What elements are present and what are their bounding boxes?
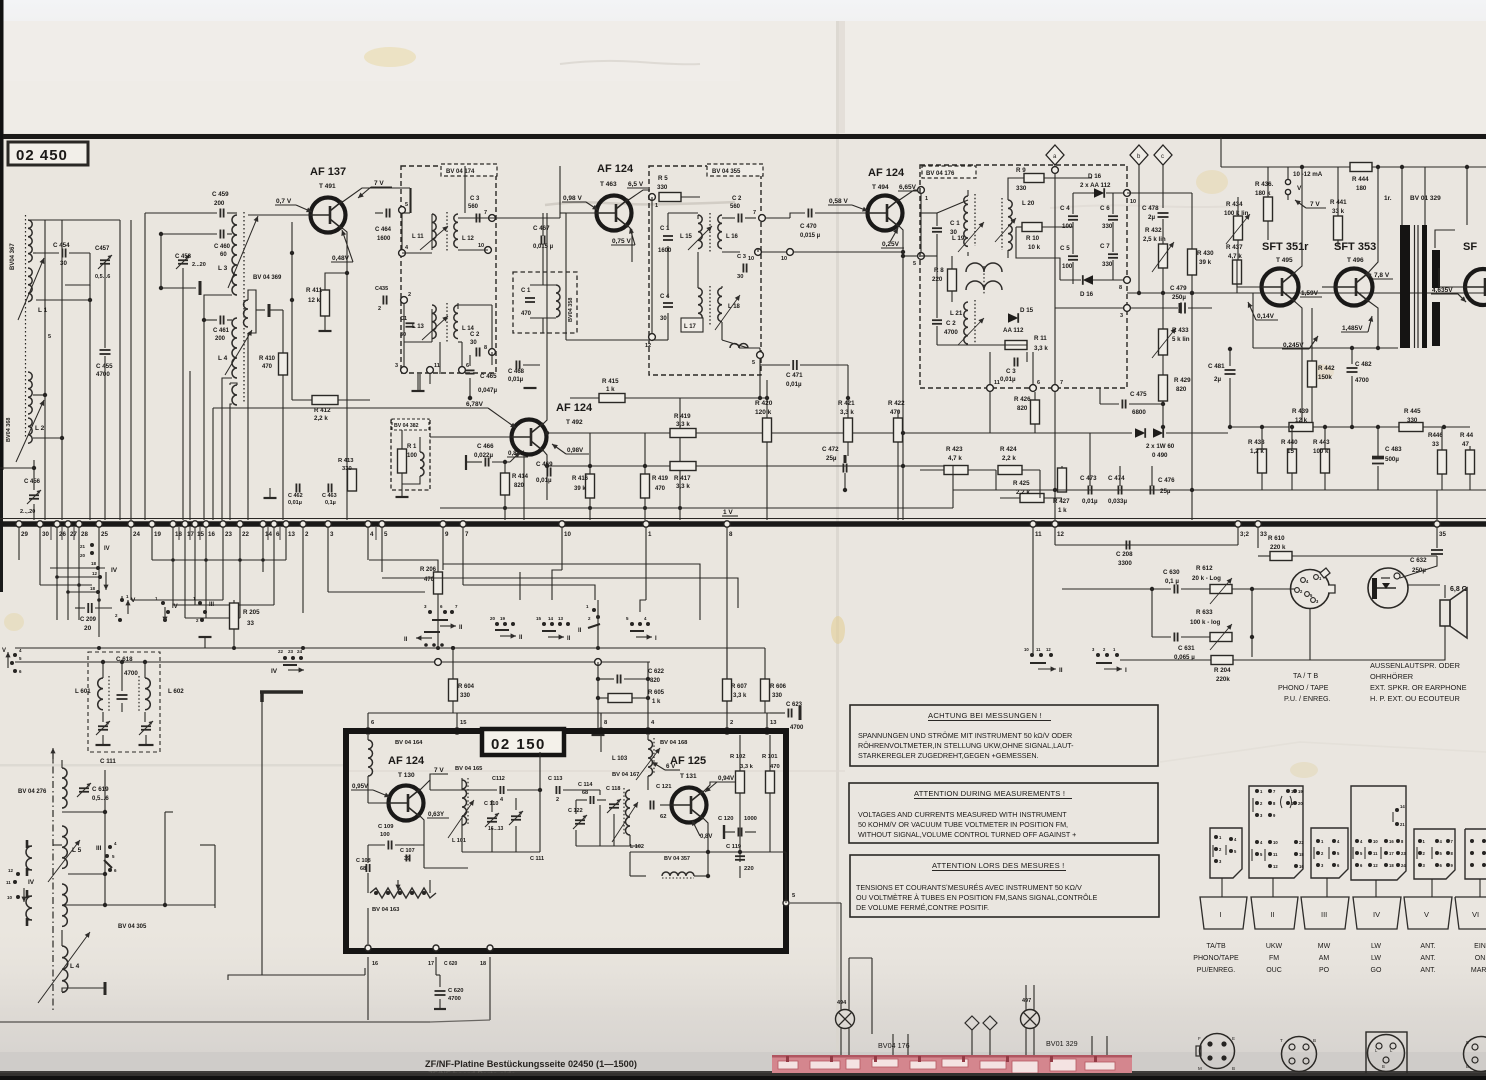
left scan edge black bar <box>0 0 4 470</box>
svg-text:50 KOHM/V OR VACUUM TUBE VOLT: 50 KOHM/V OR VACUUM TUBE VOLTMETER IN PO… <box>858 820 1068 829</box>
svg-text:L 19: L 19 <box>952 235 965 242</box>
svg-text:L 16: L 16 <box>726 234 739 240</box>
svg-text:IV: IV <box>28 879 35 886</box>
svg-text:11: 11 <box>1035 531 1042 538</box>
svg-text:AF 125: AF 125 <box>670 755 706 767</box>
svg-text:BV 04 357: BV 04 357 <box>664 856 690 862</box>
svg-text:39 k: 39 k <box>574 486 586 492</box>
svg-text:3,3 k: 3,3 k <box>733 693 747 699</box>
capacitor C3 560 in box <box>475 214 477 223</box>
svg-text:R 419: R 419 <box>674 413 691 420</box>
svg-text:0,01µ: 0,01µ <box>786 381 802 388</box>
lamp 497 symbol <box>1021 1010 1040 1029</box>
coils L15 L16 <box>698 215 702 249</box>
svg-text:14: 14 <box>265 531 272 538</box>
svg-text:C 3: C 3 <box>737 254 747 260</box>
svg-text:MW: MW <box>1318 943 1331 950</box>
svg-text:12: 12 <box>8 868 14 873</box>
capacitor C4 100 <box>1068 215 1078 217</box>
svg-text:R 410: R 410 <box>259 356 276 362</box>
svg-text:330: 330 <box>1407 417 1418 424</box>
terminal 23 on bottom rail <box>220 521 226 527</box>
svg-text:1,2 k: 1,2 k <box>1250 448 1264 455</box>
vertical pin17 down <box>435 957 437 975</box>
svg-text:R 205: R 205 <box>243 609 260 616</box>
switch cluster below R206 <box>437 594 439 648</box>
wire C455 to bus <box>104 262 106 348</box>
svg-text:22: 22 <box>242 531 249 538</box>
wires right half BV04 176 <box>1072 193 1074 214</box>
wires BV04 382 <box>401 437 403 449</box>
svg-text:0,7 V: 0,7 V <box>276 198 292 205</box>
wire T130 emitter <box>419 815 424 838</box>
svg-text:II: II <box>578 628 582 634</box>
large coupling coils <box>966 263 1002 272</box>
terminal 7 on bottom rail <box>460 521 466 527</box>
svg-text:180: 180 <box>1356 185 1367 192</box>
capacitor C463 0,1u <box>327 484 329 493</box>
headphone jack circle <box>1368 568 1408 608</box>
long vertical node7 to rail <box>1054 392 1056 520</box>
capacitor C455 <box>100 349 111 351</box>
svg-text:1r.: 1r. <box>1384 195 1392 202</box>
vertical x1252 <box>1251 589 1253 657</box>
thick corner mark <box>260 690 303 694</box>
resistor R206 470 vertical <box>434 572 443 594</box>
wire T131 base from C121 <box>660 804 671 806</box>
wire node3 inside <box>1055 307 1123 309</box>
svg-text:0 490: 0 490 <box>1152 452 1168 459</box>
terminal 18 on bottom rail <box>170 521 176 527</box>
wire AF137 base left <box>248 214 310 216</box>
switch lever IV 2 <box>96 566 100 570</box>
node 8 <box>489 349 496 356</box>
svg-text:21: 21 <box>80 544 86 549</box>
IF transformer L13/L14 coils <box>432 305 436 339</box>
svg-text:23: 23 <box>1401 851 1406 856</box>
svg-text:10: 10 <box>7 895 13 900</box>
resistor R441 33k vertical <box>1334 216 1343 240</box>
yellow stain at fold <box>831 616 845 644</box>
transistor SFT 353 T496 <box>1336 269 1373 306</box>
svg-text:ATTENTION DURING MEASUREMENTS: ATTENTION DURING MEASUREMENTS ! <box>914 789 1065 798</box>
capacitor C620 4700 <box>435 990 446 992</box>
wire R10 <box>1016 226 1022 228</box>
wire T130 base <box>368 802 388 804</box>
svg-text:C 7: C 7 <box>1100 243 1110 250</box>
stain left low <box>4 613 24 631</box>
svg-text:100: 100 <box>1062 263 1073 270</box>
svg-text:20: 20 <box>80 553 86 558</box>
switch group II bottom <box>1030 653 1034 657</box>
resistor R411 12k vertical <box>321 290 330 316</box>
svg-text:ACHTUNG BEI MESSUNGEN !: ACHTUNG BEI MESSUNGEN ! <box>928 711 1042 720</box>
svg-text:330: 330 <box>342 466 352 472</box>
vertical wire x292 <box>291 222 293 400</box>
node 1 (BV04 355 pin) <box>649 194 656 201</box>
DIN connector plug 4 right edge <box>1464 1037 1486 1072</box>
svg-text:6800: 6800 <box>1132 409 1146 416</box>
long wire y662 <box>15 661 650 663</box>
switch cluster E <box>630 622 634 626</box>
capacitor C1 1600 in 355 <box>663 235 673 237</box>
svg-text:B: B <box>1466 1064 1469 1069</box>
svg-text:12 k: 12 k <box>308 297 321 304</box>
svg-text:0,1µ: 0,1µ <box>325 500 336 506</box>
node 10 mid <box>787 249 794 256</box>
coil L102 <box>626 790 631 835</box>
wires BV04 176 internals <box>920 194 922 252</box>
node 7 (176) <box>1052 385 1059 392</box>
resistor R1 100 vertical <box>398 449 407 473</box>
coil L602 <box>145 678 150 710</box>
svg-text:L 602: L 602 <box>168 688 184 695</box>
svg-text:L 18: L 18 <box>728 304 741 310</box>
svg-text:0,1 µ: 0,1 µ <box>1165 578 1179 585</box>
svg-text:AA 112: AA 112 <box>1003 327 1024 334</box>
wire top rail feed right <box>1220 137 1222 167</box>
svg-text:C 461: C 461 <box>213 328 230 334</box>
svg-text:0,047µ: 0,047µ <box>478 387 497 394</box>
svg-text:PO: PO <box>1319 967 1330 974</box>
mode trapezoid VI <box>1455 897 1486 929</box>
svg-text:5: 5 <box>752 360 755 366</box>
svg-text:C 623: C 623 <box>786 702 803 708</box>
svg-text:39 k: 39 k <box>1199 259 1212 266</box>
terminal 10 on bottom rail <box>559 521 565 527</box>
svg-text:I: I <box>1220 910 1222 919</box>
svg-text:R 414: R 414 <box>512 474 529 480</box>
svg-text:2: 2 <box>556 797 559 803</box>
wire x598 ground inside frame <box>600 735 602 752</box>
svg-text:3,3 k: 3,3 k <box>676 421 690 428</box>
svg-text:R 444: R 444 <box>1352 176 1369 183</box>
svg-text:R 10: R 10 <box>1026 235 1040 242</box>
svg-text:19: 19 <box>1298 789 1303 794</box>
capacitor C473 001u <box>1087 486 1089 495</box>
dashed box BV04 382 <box>391 420 430 490</box>
capacitor C468 001u <box>515 361 517 370</box>
svg-text:VOLTAGES AND CURRENTS MEASURE: VOLTAGES AND CURRENTS MEASURED WITH INST… <box>858 810 1067 819</box>
svg-text:15: 15 <box>1287 448 1294 455</box>
svg-text:C 458: C 458 <box>175 254 192 260</box>
terminal 4 on bottom rail <box>365 521 371 527</box>
coil L1 adjust arrow <box>18 258 44 320</box>
svg-text:5: 5 <box>913 261 916 267</box>
svg-text:30: 30 <box>470 340 477 346</box>
svg-text:R 633: R 633 <box>1196 609 1213 616</box>
svg-text:IV: IV <box>271 668 278 675</box>
svg-text:BV 04 305: BV 04 305 <box>118 924 147 930</box>
node 11 <box>427 367 434 374</box>
svg-text:T 131: T 131 <box>680 773 697 780</box>
svg-text:4700: 4700 <box>96 371 110 378</box>
vertical pin18 down <box>489 957 491 1020</box>
svg-text:L 102: L 102 <box>630 844 644 850</box>
wire R410 column <box>282 310 284 353</box>
svg-text:0,98V: 0,98V <box>567 447 584 454</box>
svg-text:IV: IV <box>104 546 110 552</box>
svg-text:24: 24 <box>1401 863 1406 868</box>
R607 3,3k resistor vertical <box>723 679 732 701</box>
svg-text:L 4: L 4 <box>70 963 80 970</box>
small coil below L4 <box>232 385 237 405</box>
svg-text:T 495: T 495 <box>1276 257 1293 264</box>
wire node5 down to R420 row <box>759 358 761 398</box>
svg-text:470: 470 <box>521 311 532 317</box>
svg-text:1 k: 1 k <box>652 699 661 705</box>
terminal 3 on bottom rail <box>325 521 331 527</box>
wire y230 from node10 <box>1127 192 1192 194</box>
svg-text:60: 60 <box>220 252 227 258</box>
svg-text:C 468: C 468 <box>508 369 525 375</box>
svg-text:11: 11 <box>434 363 440 369</box>
terminal 15 on bottom rail <box>192 521 198 527</box>
wires R433 R429 column <box>1162 293 1164 329</box>
wire T494 base <box>815 212 867 214</box>
horizontal fold crease left <box>0 764 345 767</box>
diamond test point bottom b <box>965 1016 979 1030</box>
vertical x145 <box>144 213 146 520</box>
svg-text:497: 497 <box>1022 998 1031 1004</box>
svg-text:L 601: L 601 <box>75 688 91 695</box>
core dots L13 L14 <box>446 303 448 342</box>
wire T131 collector <box>702 782 739 793</box>
vertical buses upper mid area <box>410 188 412 213</box>
svg-text:10 -12 mA: 10 -12 mA <box>1293 171 1323 178</box>
wire left margin horizontal <box>0 467 34 469</box>
pickup loop lower <box>26 896 32 920</box>
svg-text:220: 220 <box>744 866 754 872</box>
capacitor C435 <box>382 296 384 305</box>
red PCB strip <box>772 1055 1132 1079</box>
wire SFT351 collector <box>1293 167 1302 274</box>
svg-text:EXT. SPKR. OR EARPHONE: EXT. SPKR. OR EARPHONE <box>1370 683 1467 692</box>
svg-text:330: 330 <box>460 693 471 699</box>
svg-text:L 20: L 20 <box>1022 200 1035 207</box>
svg-text:PHONO / TAPE: PHONO / TAPE <box>1278 683 1329 692</box>
svg-text:8: 8 <box>484 345 487 351</box>
arrow L13 <box>422 316 448 340</box>
svg-text:R 11: R 11 <box>1034 335 1047 342</box>
resistor R440 15 vertical <box>1288 449 1297 473</box>
terminal 17 on bottom rail <box>182 521 188 527</box>
trimmer left <box>98 725 108 727</box>
wires BV04 358 <box>530 284 556 286</box>
svg-text:C 6: C 6 <box>1100 205 1110 212</box>
R604 330 column <box>451 646 455 650</box>
svg-text:L 12: L 12 <box>462 236 475 242</box>
svg-text:V: V <box>1424 910 1429 919</box>
label tab BV 04 176 <box>922 166 976 178</box>
capacitor C481 2u <box>1225 369 1236 371</box>
svg-text:2: 2 <box>378 306 381 312</box>
wire C481 <box>1229 349 1231 366</box>
svg-text:ANT.: ANT. <box>1420 943 1435 950</box>
svg-text:c: c <box>1161 154 1164 160</box>
box wires BV04 165 <box>461 778 463 790</box>
wire SFT353 collector <box>1367 167 1378 274</box>
svg-text:23: 23 <box>225 531 232 538</box>
svg-text:14: 14 <box>1400 804 1405 809</box>
switch lever IV top <box>90 543 94 547</box>
transistor AF124 T494 <box>868 196 903 231</box>
wire AF124 T492 base left <box>460 436 511 438</box>
svg-text:16: 16 <box>372 961 378 967</box>
svg-text:L 21: L 21 <box>950 310 963 317</box>
R606 330 resistor vertical <box>761 679 770 701</box>
svg-text:0,01µ: 0,01µ <box>288 500 302 506</box>
main signal wire from C468 to AF124 <box>492 217 560 219</box>
svg-text:D 15: D 15 <box>1020 307 1034 314</box>
svg-text:F: F <box>1198 1036 1201 1041</box>
svg-text:33: 33 <box>247 620 254 627</box>
wire AF124 T492 collector <box>542 213 547 425</box>
svg-text:V: V <box>2 648 6 654</box>
svg-text:C 113: C 113 <box>548 776 562 782</box>
thin line above rail full width <box>0 518 1486 520</box>
dashed box BV04 358 <box>513 272 577 333</box>
mode trapezoid V <box>1404 897 1452 929</box>
pin row line above frame 02150 <box>368 712 770 714</box>
svg-text:AF 124: AF 124 <box>868 167 905 179</box>
terminal 29 on bottom rail <box>16 521 22 527</box>
svg-text:5: 5 <box>48 334 51 340</box>
svg-text:22: 22 <box>278 649 284 654</box>
svg-text:R 605: R 605 <box>648 690 665 696</box>
svg-text:C 631: C 631 <box>1178 645 1195 652</box>
svg-text:IV: IV <box>172 604 178 610</box>
svg-text:C 478: C 478 <box>1142 205 1159 212</box>
wire SF base <box>1439 286 1465 288</box>
svg-text:0,94V: 0,94V <box>718 775 735 782</box>
svg-text:R 607: R 607 <box>731 684 748 690</box>
node below diamond a <box>1052 167 1059 174</box>
svg-text:68: 68 <box>582 790 588 796</box>
terminal 6 on bottom rail <box>271 521 277 527</box>
svg-text:RÖHRENVOLTMETER,IN STELLUNG UK: RÖHRENVOLTMETER,IN STELLUNG UKW,OHNE SIG… <box>858 741 1074 750</box>
terminal 2 on bottom rail <box>300 521 306 527</box>
svg-text:AF 137: AF 137 <box>310 166 346 178</box>
mode trapezoid III <box>1301 897 1349 929</box>
node 5 BV04 176 <box>918 253 925 260</box>
IF transformer L11/L12 coils <box>432 214 436 248</box>
svg-text:0,8V: 0,8V <box>700 834 712 840</box>
svg-text:220 k: 220 k <box>1270 544 1286 551</box>
transformer core lines <box>1414 225 1416 348</box>
svg-text:100: 100 <box>1062 223 1073 230</box>
svg-text:H. P. EXT. OU ECOUTEUR: H. P. EXT. OU ECOUTEUR <box>1370 694 1460 703</box>
capacitor C631 0,065u <box>1173 633 1175 642</box>
svg-text:C 120: C 120 <box>718 816 733 822</box>
svg-text:R 5: R 5 <box>658 175 668 182</box>
antenna coil core dotted line <box>25 215 27 438</box>
pin stubs and labels above frame <box>367 713 369 729</box>
coil L1 upper winding <box>28 220 32 262</box>
warning box ACHTUNG <box>850 705 1158 766</box>
ground mark mid <box>264 497 277 499</box>
svg-text:33: 33 <box>1432 441 1439 448</box>
svg-text:560: 560 <box>730 204 741 210</box>
coil L1 lower winding <box>28 268 32 302</box>
wire T130 collector <box>419 774 448 791</box>
svg-text:R 437: R 437 <box>1226 244 1243 251</box>
svg-text:AF 124: AF 124 <box>556 402 593 414</box>
svg-text:17: 17 <box>428 961 434 967</box>
svg-text:25µ: 25µ <box>1160 488 1171 495</box>
svg-text:L 3: L 3 <box>218 265 228 272</box>
terminal 26 on bottom rail <box>54 521 60 527</box>
svg-text:T 130: T 130 <box>398 772 415 779</box>
svg-text:15: 15 <box>460 720 467 726</box>
svg-text:C 109: C 109 <box>378 824 394 830</box>
svg-text:2: 2 <box>305 531 309 538</box>
svg-text:D 16: D 16 <box>1088 173 1102 180</box>
svg-text:7 V: 7 V <box>434 767 444 774</box>
wire AF124 T492 emitter <box>542 449 547 500</box>
svg-text:C 3: C 3 <box>470 196 480 202</box>
wire C632 to jack <box>1400 560 1437 578</box>
terminal 9 on bottom rail <box>440 521 446 527</box>
wire L4 bottom <box>222 378 232 520</box>
svg-text:33: 33 <box>1260 531 1267 538</box>
svg-text:16: 16 <box>1389 839 1394 844</box>
svg-text:R 424: R 424 <box>1000 446 1017 453</box>
svg-text:C 111: C 111 <box>530 856 544 862</box>
svg-text:R 8: R 8 <box>934 267 944 274</box>
svg-text:C 473: C 473 <box>1080 475 1097 482</box>
svg-text:T: T <box>1280 1038 1283 1043</box>
svg-text:R 434: R 434 <box>1226 201 1243 208</box>
red PCB strip white component outlines <box>778 1061 798 1069</box>
svg-text:0,14V: 0,14V <box>1257 313 1275 320</box>
wire y975 with hook <box>228 975 365 980</box>
svg-text:ZF/NF-Platine Bestückungsseit: ZF/NF-Platine Bestückungsseite 02450 (1—… <box>425 1059 637 1069</box>
wire pin5 to lamp 494 <box>790 902 841 904</box>
resistor R438 1,2k vertical <box>1258 449 1267 473</box>
coil L5 <box>62 826 67 868</box>
svg-text:TENSIONS ET COURANTSʻMESURÉS: TENSIONS ET COURANTSʻMESURÉS AVEC INSTRU… <box>856 883 1082 892</box>
wire C470 left <box>766 217 790 219</box>
capacitor C462 0,01u <box>295 484 297 493</box>
svg-text:10: 10 <box>1273 840 1278 845</box>
wire right column x1467 <box>1466 167 1468 225</box>
svg-text:494: 494 <box>837 1000 847 1006</box>
resistor R439 12k horizontal <box>1289 423 1313 432</box>
svg-text:OHRHÖRER: OHRHÖRER <box>1370 672 1413 681</box>
runs from terminals 7 10 <box>463 585 595 600</box>
dashed box C111 <box>88 652 160 752</box>
svg-text:AF 124: AF 124 <box>597 163 634 175</box>
svg-text:R 420: R 420 <box>755 400 773 407</box>
resistor R426 820 vertical <box>1031 400 1040 424</box>
frame pin nodes bottom <box>365 945 371 951</box>
terminal 35 on bottom rail <box>1434 521 1440 527</box>
central vertical fold crease <box>836 21 839 1051</box>
wire R412 <box>292 399 312 401</box>
svg-text:C112: C112 <box>492 776 505 782</box>
wire y660 <box>1120 659 1211 661</box>
svg-text:C 463: C 463 <box>322 493 337 499</box>
svg-text:2: 2 <box>730 720 733 726</box>
coil L2 winding <box>28 372 32 414</box>
pickup loop upper <box>26 846 32 870</box>
svg-text:UKW: UKW <box>1266 943 1283 950</box>
svg-text:330: 330 <box>1102 223 1113 230</box>
svg-text:TA/TB: TA/TB <box>1206 943 1226 950</box>
svg-text:R 9: R 9 <box>1016 167 1026 174</box>
svg-text:R 415: R 415 <box>602 378 619 385</box>
